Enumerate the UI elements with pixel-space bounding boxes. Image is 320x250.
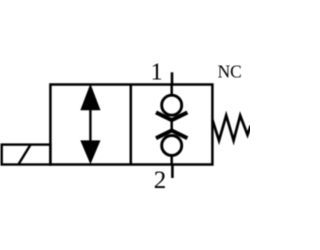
svg-text:1: 1 [151,60,163,86]
svg-text:NC: NC [218,62,242,82]
svg-text:2: 2 [154,167,167,194]
